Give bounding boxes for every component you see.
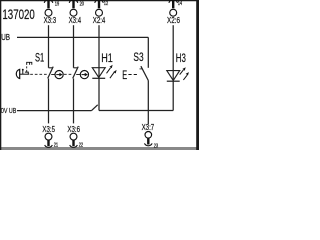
svg-text:X2:6: X2:6 [167,15,180,25]
UB rail [17,36,148,38]
svg-text:23: 23 [154,143,158,149]
svg-text:22: 22 [79,143,83,149]
connector X3:5 pin 21 [42,124,58,148]
connector X3:4 pin 20 [69,0,84,25]
svg-text:0V UB: 0V UB [1,106,16,115]
svg-text:X3:7: X3:7 [142,122,155,132]
wire column X3:3 upper [48,25,50,68]
wire column X3:5 lower [48,79,50,124]
svg-text:S1: S1 [35,51,44,65]
S1 key head [22,69,24,71]
svg-text:20: 20 [80,1,84,7]
wire column X2:4 / H1 [98,25,100,110]
svg-text:H3: H3 [176,51,186,65]
S1 linkage dashed line [30,73,48,75]
S3 contact (NO) [140,66,149,80]
wire column S3 lower to X3:7 [147,81,149,125]
svg-text:14: 14 [178,1,182,7]
S1 actuator head [16,69,19,78]
S1 actuator stem [20,73,30,75]
S1 contact 2 detent circle-arrow [80,71,88,79]
LED H3 [167,67,189,81]
0V rail right segment [99,110,173,112]
wire column S3 upper [147,37,149,67]
connector X3:6 pin 22 [67,124,83,148]
svg-text:E: E [122,68,127,82]
0V rail left segment [17,110,91,112]
svg-text:X3:4: X3:4 [69,15,82,25]
wire column X3:6 lower [73,79,75,124]
S1 detent dashed riser [26,65,28,72]
S1 detent latch notch [27,62,32,65]
connector X2:4 pin 12 [93,0,108,25]
S1 contact 2 (NO) [73,67,79,79]
svg-text:UB: UB [1,33,10,42]
border frame [0,0,199,150]
wire column X2:6 / H3 [172,25,174,110]
S1 contact 1 detent circle-arrow [55,71,63,79]
S3 dashed actuation line [128,74,137,76]
svg-text:X2:4: X2:4 [93,15,106,25]
S1 contact 1 (NO) [48,67,54,79]
svg-text:12: 12 [104,1,108,7]
svg-text:S3: S3 [133,50,143,64]
contact blade in 0V rail [91,105,97,111]
connector X2:6 pin 14 [167,0,182,25]
link blade2 to detent circle 2 [76,73,80,75]
svg-text:X3:3: X3:3 [44,15,57,25]
LED H1 [92,65,116,79]
svg-text:137020: 137020 [2,7,35,22]
connector X3:7 pin 23 [142,122,159,150]
S1 key bit hook [25,72,28,74]
svg-text:19: 19 [55,1,59,7]
S1 key shaft [22,70,24,74]
connector X3:3 pin 19 [44,0,60,25]
svg-text:H1: H1 [101,51,113,65]
wire column X3:4 upper [73,25,75,68]
svg-text:21: 21 [54,143,58,149]
link blade1 to detent circle 1 [51,73,55,75]
